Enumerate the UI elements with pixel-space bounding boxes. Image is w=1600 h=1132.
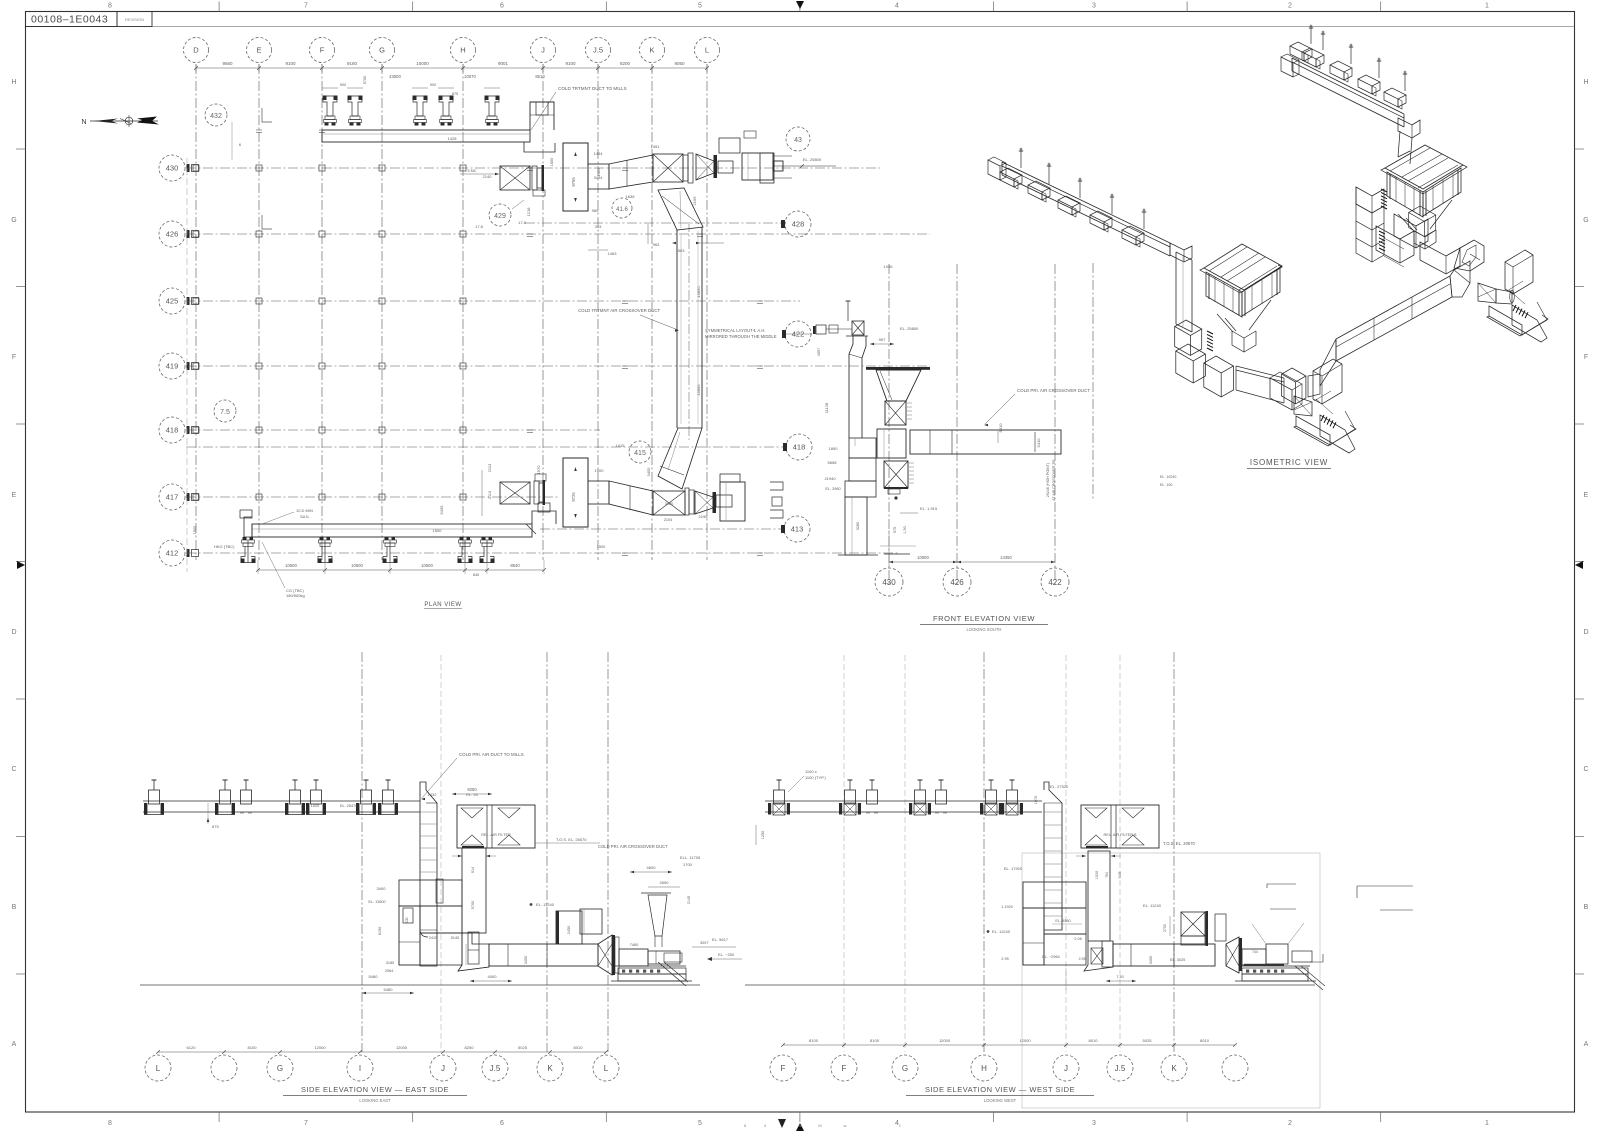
- svg-text:LOOKING SOUTH: LOOKING SOUTH: [967, 627, 1002, 632]
- west elevation: bottom dimension line: [781, 1038, 1237, 1047]
- svg-text:I: I: [359, 1064, 361, 1073]
- svg-text:8010: 8010: [1089, 1038, 1099, 1043]
- svg-text:10070: 10070: [464, 74, 476, 79]
- svg-text:1: 1: [1485, 1120, 1489, 1127]
- svg-text:422: 422: [1048, 578, 1062, 587]
- svg-text:T.O.S. EL. 20570: T.O.S. EL. 20570: [1163, 841, 1196, 846]
- isometric: left penthouse roof: [1200, 244, 1282, 293]
- svg-text:426: 426: [166, 230, 179, 239]
- east elevation: left small dims: [362, 886, 414, 994]
- svg-text:10 D MIN: 10 D MIN: [296, 508, 313, 513]
- svg-text:1500: 1500: [597, 545, 605, 549]
- plan: right edge equipment stub: [760, 153, 836, 183]
- svg-text:REVISION: REVISION: [125, 17, 144, 22]
- svg-text:4600: 4600: [647, 865, 657, 870]
- svg-text:F: F: [12, 354, 16, 361]
- svg-text:900: 900: [430, 83, 436, 87]
- west elevation: xbox unit on duct: [1143, 903, 1226, 946]
- svg-text:3007: 3007: [700, 941, 708, 945]
- east elevation: bottom dimension line: [156, 1045, 608, 1054]
- svg-text:G: G: [902, 1064, 908, 1073]
- svg-text:B: B: [1584, 904, 1589, 911]
- plan: lower dimension line: [256, 560, 546, 577]
- svg-text:975: 975: [893, 527, 897, 533]
- front elevation: crossover horizontal duct: [910, 430, 1061, 454]
- svg-text:3450: 3450: [665, 502, 673, 506]
- svg-text:MIRRORED THROUGH THE MIDDLE: MIRRORED THROUGH THE MIDDLE: [705, 334, 777, 339]
- svg-text:5410: 5410: [998, 423, 1003, 433]
- svg-text:2750: 2750: [1163, 924, 1167, 932]
- plan: lower duct run: [252, 503, 556, 537]
- isometric: right feed duct end fitting: [1281, 54, 1299, 77]
- svg-text:9726: 9726: [571, 492, 576, 502]
- svg-text:2.95: 2.95: [1001, 957, 1008, 961]
- plan: lower duct hangers: [241, 537, 495, 563]
- west elevation: hanger note: [756, 769, 826, 845]
- plan view: horizontal grid centrelines: [186, 168, 930, 553]
- svg-text:2198: 2198: [699, 514, 709, 519]
- plan: lower train outlet duct: [588, 481, 609, 549]
- plan: upper train outlet duct: [588, 164, 609, 189]
- svg-text:EL. 2960: EL. 2960: [825, 487, 840, 491]
- svg-text:989: 989: [592, 208, 599, 213]
- isometric: crossover right transition: [1450, 261, 1470, 297]
- svg-text:3450: 3450: [524, 956, 528, 964]
- svg-text:967: 967: [879, 337, 886, 342]
- isometric: left bottom elbow going right: [1204, 356, 1284, 403]
- svg-text:2650: 2650: [660, 880, 670, 885]
- isometric: left outlet funnel box: [1313, 359, 1342, 414]
- west elevation: fan box west: [1242, 923, 1312, 965]
- svg-text:1218: 1218: [526, 207, 531, 217]
- west elevation: mills duct band: [765, 801, 1042, 812]
- plan view: extra dashed circles 432 and 7.5: [205, 104, 227, 126]
- svg-text:10500: 10500: [421, 563, 433, 568]
- svg-text:LOOKING EAST: LOOKING EAST: [359, 1098, 391, 1103]
- svg-text:1250: 1250: [761, 831, 765, 839]
- svg-text:412: 412: [166, 549, 179, 558]
- east elevation: EL 11240 label: [530, 902, 555, 907]
- plan: right-side row circles 433/428: [786, 127, 810, 151]
- svg-text:1454: 1454: [596, 167, 601, 177]
- svg-text:1035: 1035: [884, 264, 894, 269]
- svg-text:REL. AIR FILTER: REL. AIR FILTER: [481, 833, 511, 837]
- front elevation: crossover label: [984, 388, 1090, 426]
- svg-text:8010: 8010: [1200, 1038, 1210, 1043]
- svg-text:8250: 8250: [465, 1045, 475, 1050]
- svg-text:G: G: [379, 46, 385, 55]
- svg-text:3455: 3455: [646, 467, 651, 477]
- isometric: right outlet chute and base: [1487, 302, 1548, 342]
- svg-text:12000: 12000: [396, 1045, 408, 1050]
- plan: lower train flanges: [685, 488, 694, 515]
- svg-text:2415: 2415: [429, 936, 437, 940]
- plan: scattered dimension texts upper train: [439, 136, 893, 519]
- east elevation: left boxes cluster: [399, 880, 479, 965]
- svg-text:9050: 9050: [674, 61, 685, 66]
- svg-text:F: F: [842, 1064, 847, 1073]
- plan: lower train plenum 9726: [563, 458, 588, 527]
- svg-text:F: F: [1584, 354, 1588, 361]
- svg-text:1100 (TYP.): 1100 (TYP.): [805, 775, 826, 780]
- svg-text:426: 426: [950, 578, 964, 587]
- svg-text:8510: 8510: [535, 74, 545, 79]
- svg-text:14350: 14350: [1000, 555, 1012, 560]
- svg-text:1650: 1650: [550, 158, 554, 166]
- svg-text:2964: 2964: [385, 969, 393, 973]
- west elevation: duct below filter: [1076, 851, 1122, 967]
- svg-text:1415: 1415: [616, 443, 626, 448]
- svg-text:1.1920: 1.1920: [1001, 905, 1013, 909]
- svg-text:SA IL: SA IL: [300, 514, 310, 519]
- east elevation: main riser duct: [420, 782, 443, 966]
- plan: upper AHU train supply x-box: [460, 166, 530, 190]
- svg-text:5025: 5025: [1143, 1038, 1153, 1043]
- isometric: left outlet chute and base: [1294, 411, 1356, 453]
- svg-text:5025: 5025: [518, 1045, 528, 1050]
- isometric: right outlet cone: [1478, 283, 1496, 303]
- svg-text:1,50: 1,50: [903, 526, 907, 533]
- isometric: left feed duct hanger shoes: [1000, 148, 1146, 247]
- plan: 415 detail circle: [616, 441, 651, 463]
- isometric: left feed duct end fitting: [988, 157, 1006, 180]
- plan: upper train mill inlet: [719, 131, 783, 180]
- svg-text:43500: 43500: [389, 74, 401, 79]
- east elevation: title: [283, 1085, 467, 1103]
- plan: lower train mill inlet: [720, 474, 783, 521]
- svg-text:2.95: 2.95: [1079, 957, 1086, 961]
- svg-text:REL. AIR FILTER B: REL. AIR FILTER B: [1103, 833, 1137, 837]
- svg-text:K: K: [649, 46, 654, 55]
- isometric: title: [1247, 458, 1331, 469]
- svg-text:FRONT ELEVATION VIEW: FRONT ELEVATION VIEW: [933, 614, 1035, 623]
- svg-text:CD: CD: [405, 917, 409, 923]
- svg-text:8010: 8010: [574, 1045, 584, 1050]
- svg-text:1970: 1970: [536, 465, 541, 475]
- svg-text:EL. 25470: EL. 25470: [340, 804, 357, 808]
- plan: upper train flanges: [683, 153, 693, 183]
- svg-text:F: F: [320, 46, 325, 55]
- svg-text:7.40: 7.40: [1116, 975, 1123, 979]
- isometric: left sweep transition gores: [1282, 368, 1320, 404]
- svg-text:8540: 8540: [510, 563, 520, 568]
- svg-text:H: H: [460, 46, 465, 55]
- east elevation: TOS EL label: [535, 837, 668, 849]
- front elevation: bottom dimension line: [889, 530, 1055, 566]
- svg-text:G: G: [277, 1064, 283, 1073]
- plan: upper duct hangers: [323, 96, 500, 126]
- svg-text:SIDE ELEVATION VIEW — EAST SID: SIDE ELEVATION VIEW — EAST SIDE: [301, 1085, 449, 1094]
- svg-text:G: G: [1583, 217, 1588, 224]
- svg-text:EL. −250: EL. −250: [718, 952, 735, 957]
- svg-text:8100: 8100: [248, 1045, 258, 1050]
- svg-text:845: 845: [473, 573, 479, 577]
- svg-text:C: C: [11, 766, 16, 773]
- svg-text:4997: 4997: [817, 348, 821, 356]
- svg-text:10000: 10000: [917, 555, 929, 560]
- svg-text:17.8: 17.8: [518, 220, 527, 225]
- svg-text:343: 343: [595, 224, 602, 229]
- east elevation: right side labels: [452, 787, 742, 961]
- svg-text:EL. 25: EL. 25: [466, 792, 478, 797]
- svg-text:744: 744: [1252, 950, 1258, 954]
- plan: upper duct run to mills: [322, 102, 554, 142]
- svg-text:COLD TRTMNT AIR CROSSOVER DUCT: COLD TRTMNT AIR CROSSOVER DUCT: [578, 308, 661, 313]
- svg-text:8100: 8100: [809, 1038, 819, 1043]
- plan: lower crossover diagonal: [658, 428, 702, 489]
- plan: upper train connector flanges: [532, 165, 545, 196]
- east elevation: filter housing: [457, 805, 535, 849]
- svg-text:H: H: [981, 1064, 987, 1073]
- svg-text:6120: 6120: [187, 1045, 197, 1050]
- svg-text:418: 418: [793, 443, 806, 452]
- isometric: left riser duct: [1176, 252, 1192, 332]
- svg-text:1020: 1020: [311, 804, 319, 808]
- plan: notes around lower duct: [193, 508, 313, 598]
- svg-text:5658: 5658: [828, 460, 838, 465]
- svg-text:5410: 5410: [1036, 438, 1041, 448]
- svg-text:A: A: [1584, 1041, 1589, 1048]
- isometric: right cluster extra box: [1409, 206, 1436, 237]
- svg-text:15895: 15895: [696, 384, 701, 396]
- plan: upper train x-damper: [653, 154, 683, 182]
- svg-text:EL. 100: EL. 100: [1160, 483, 1172, 487]
- svg-text:43: 43: [794, 137, 802, 144]
- isometric: right cluster duct to elbow: [1420, 242, 1460, 274]
- west elevation: ground line west: [745, 984, 1315, 986]
- svg-text:EL. 13600: EL. 13600: [368, 900, 385, 904]
- plan view: column markers: [193, 130, 763, 556]
- svg-text:7: 7: [304, 1120, 308, 1127]
- isometric: boxes under left riser: [1175, 320, 1206, 383]
- svg-text:415: 415: [634, 450, 646, 457]
- west elevation: bottom grid circles: [770, 1055, 1248, 1081]
- svg-text:1500: 1500: [193, 526, 197, 534]
- isometric: crossover duct long run: [1320, 276, 1452, 386]
- svg-text:H: H: [11, 79, 16, 86]
- svg-text:3400: 3400: [377, 886, 387, 891]
- svg-text:C: C: [1583, 766, 1588, 773]
- svg-text:1070: 1070: [1034, 796, 1038, 804]
- svg-text:K: K: [1171, 1064, 1177, 1073]
- bottom margin small marks: [744, 1119, 901, 1128]
- svg-text:2104: 2104: [664, 518, 672, 522]
- svg-text:LOOKING WEST: LOOKING WEST: [984, 1098, 1017, 1103]
- svg-text:6: 6: [500, 1120, 504, 1127]
- svg-text:1432: 1432: [428, 792, 438, 797]
- svg-text:COLD PRI. AIR DUCT TO MILLS: COLD PRI. AIR DUCT TO MILLS: [459, 752, 524, 757]
- svg-text:9766: 9766: [571, 177, 576, 187]
- isometric: left elbow at riser top: [1170, 243, 1192, 262]
- svg-text:J: J: [541, 46, 545, 55]
- north arrow symbol: [81, 115, 159, 127]
- isometric: right feed duct: [1292, 58, 1404, 127]
- plan: lower AHU train supply x-box: [482, 470, 530, 516]
- svg-text:J: J: [441, 1064, 445, 1073]
- svg-text:425: 425: [166, 297, 179, 306]
- svg-text:B: B: [12, 904, 17, 911]
- svg-text:5: 5: [698, 1120, 702, 1127]
- west elevation: base skid west: [1235, 954, 1325, 990]
- svg-text:2145: 2145: [687, 896, 691, 904]
- plan: lower duct left riser: [240, 510, 252, 537]
- svg-text:429: 429: [494, 213, 506, 220]
- west elevation: left boxes cluster west: [1004, 866, 1086, 965]
- svg-text:ELL. 11705: ELL. 11705: [680, 855, 701, 860]
- plan view: top dimension line: [194, 61, 709, 72]
- plan: upper hanger dimension marks: [322, 74, 545, 96]
- svg-text:1890: 1890: [829, 446, 839, 451]
- svg-text:2113: 2113: [487, 463, 492, 472]
- svg-text:5145: 5145: [451, 936, 459, 940]
- svg-text:3185: 3185: [386, 961, 394, 965]
- svg-text:3: 3: [1092, 3, 1096, 10]
- west elevation: filter housing: [1081, 805, 1159, 849]
- svg-text:10500: 10500: [351, 563, 363, 568]
- svg-text:914: 914: [471, 867, 475, 873]
- svg-text:12000: 12000: [1019, 1038, 1031, 1043]
- west elevation: misc dims west: [987, 905, 1082, 990]
- svg-text:5480: 5480: [369, 974, 379, 979]
- isometric: left cluster spring hangers: [1207, 331, 1213, 351]
- isometric: right penthouse walls: [1387, 168, 1461, 217]
- svg-text:6150: 6150: [378, 927, 382, 935]
- svg-text:1434: 1434: [594, 151, 604, 156]
- svg-text:SYMMETRICAL LAYOUT ℄ A.H.: SYMMETRICAL LAYOUT ℄ A.H.: [705, 328, 766, 333]
- svg-text:EL. −2960: EL. −2960: [1042, 955, 1059, 959]
- svg-text:1020: 1020: [1095, 871, 1099, 879]
- svg-text:9160: 9160: [347, 61, 358, 66]
- svg-text:SIDE ELEVATION VIEW — WEST SID: SIDE ELEVATION VIEW — WEST SIDE: [925, 1085, 1075, 1094]
- plan view: vertical grid centrelines: [196, 64, 707, 560]
- svg-text:1500: 1500: [433, 528, 443, 533]
- svg-text:M: M: [818, 1123, 821, 1128]
- svg-text:N: N: [81, 119, 86, 126]
- svg-text:10000: 10000: [416, 61, 429, 66]
- svg-text:7.5: 7.5: [220, 409, 230, 416]
- plan view: column grid circles top: [184, 38, 720, 63]
- svg-text:AT AIR CROSSOVER TIE: AT AIR CROSSOVER TIE: [1052, 459, 1056, 501]
- west elevation: elbow and jog duct: [1079, 941, 1113, 971]
- svg-text:A: A: [12, 1041, 17, 1048]
- svg-text:E: E: [1584, 492, 1589, 499]
- svg-text:1636: 1636: [626, 194, 636, 199]
- isometric: right penthouse roof: [1381, 145, 1467, 194]
- svg-text:COLD PRI. AIR CROSSOVER DUCT: COLD PRI. AIR CROSSOVER DUCT: [598, 844, 668, 849]
- svg-text:K: K: [547, 1064, 553, 1073]
- plan: upper train slant duct: [609, 155, 653, 189]
- isometric: right cluster boxes: [1376, 214, 1428, 267]
- plan: upper-left partial walls: [232, 108, 272, 229]
- front elevation: small dims: [824, 402, 1056, 554]
- isometric: left penthouse walls: [1206, 268, 1280, 317]
- svg-text:3450: 3450: [1149, 956, 1153, 964]
- svg-text:L: L: [156, 1064, 161, 1073]
- svg-text:1428: 1428: [448, 136, 458, 141]
- svg-text:L: L: [604, 1064, 609, 1073]
- isometric: left outlet duct drop: [1270, 372, 1302, 410]
- svg-text:6: 6: [500, 3, 504, 10]
- svg-text:5480: 5480: [384, 987, 394, 992]
- svg-text:EL. 27520: EL. 27520: [1050, 784, 1069, 789]
- svg-text:418: 418: [166, 426, 179, 435]
- east elevation: duct to mills label: [421, 752, 524, 800]
- svg-text:2159: 2159: [692, 196, 697, 206]
- east elevation: discharge and brace: [658, 953, 688, 986]
- plan view: row grid circles left: [159, 155, 199, 572]
- svg-text:3280: 3280: [856, 522, 860, 530]
- svg-text:3: 3: [1092, 1120, 1096, 1127]
- front elevation: title: [920, 614, 1048, 632]
- west elevation: hangers: [768, 780, 1023, 815]
- svg-text:8: 8: [108, 3, 112, 10]
- isometric: right penthouse hopper: [1398, 200, 1452, 249]
- svg-text:5435: 5435: [439, 505, 444, 515]
- svg-text:J.5: J.5: [593, 46, 603, 55]
- west elevation: outlet cone west: [1226, 937, 1242, 973]
- svg-text:180/500kg: 180/500kg: [286, 593, 305, 598]
- svg-text:9100: 9100: [285, 61, 296, 66]
- svg-text:2.06: 2.06: [1074, 937, 1081, 941]
- svg-text:1500: 1500: [595, 468, 605, 473]
- svg-text:D: D: [193, 46, 199, 55]
- svg-text:8: 8: [108, 1120, 112, 1127]
- svg-text:4: 4: [895, 3, 899, 10]
- svg-text:963: 963: [653, 242, 660, 247]
- west elevation: TOS EL label west: [1163, 841, 1196, 846]
- front elevation: top equipment and hangers: [813, 301, 919, 356]
- west elevation: horizontal duct west: [1106, 944, 1215, 982]
- svg-text:12000: 12000: [314, 1045, 326, 1050]
- svg-text:COLD TRTMNT DUCT TO MILLS: COLD TRTMNT DUCT TO MILLS: [558, 86, 627, 91]
- svg-text:ISOMETRIC VIEW: ISOMETRIC VIEW: [1250, 458, 1328, 467]
- svg-text:EL. 9580: EL. 9580: [1055, 919, 1070, 923]
- east elevation: bottom grid circles: [145, 1055, 619, 1081]
- east elevation: horizontal duct: [458, 944, 598, 982]
- west elevation: title: [906, 1085, 1094, 1103]
- east elevation: hanger dim 875: [207, 803, 220, 829]
- east elevation: fan box: [619, 943, 680, 966]
- front elevation: left row circles 422/418/413: [782, 321, 812, 347]
- svg-text:900: 900: [340, 83, 346, 87]
- isometric: right elbow up: [1454, 240, 1484, 271]
- plan: upper train small duct: [718, 161, 733, 173]
- isometric: left penthouse hopper: [1217, 300, 1271, 352]
- svg-text:5 MC: 5 MC: [467, 169, 476, 173]
- svg-text:J.5: J.5: [1115, 1064, 1126, 1073]
- plan: lower train small duct: [664, 495, 732, 522]
- svg-text:7460: 7460: [630, 943, 638, 947]
- plan: symmetrical layout note: [705, 328, 777, 339]
- svg-text:5.05: 5.05: [1118, 872, 1122, 879]
- svg-text:2450: 2450: [567, 926, 571, 934]
- svg-text:5: 5: [698, 3, 702, 10]
- svg-text:EL. 5617: EL. 5617: [712, 937, 729, 942]
- front elevation: bottom grid circles: [875, 568, 903, 596]
- svg-text:764: 764: [1105, 872, 1109, 878]
- svg-text:1503: 1503: [676, 248, 686, 253]
- svg-text:2: 2: [1288, 1120, 1292, 1127]
- svg-text:41.6: 41.6: [616, 207, 628, 213]
- front elevation: hopper: [866, 367, 930, 401]
- plan: label cold trtmnt duct to mills: [531, 86, 627, 130]
- svg-text:21940: 21940: [824, 476, 836, 481]
- svg-text:EL. 11240: EL. 11240: [536, 902, 555, 907]
- east elevation: elbow to horizontal duct: [458, 933, 489, 971]
- svg-text:1: 1: [1485, 3, 1489, 10]
- front elevation: filter/damper stack: [877, 401, 914, 494]
- svg-text:G: G: [11, 217, 16, 224]
